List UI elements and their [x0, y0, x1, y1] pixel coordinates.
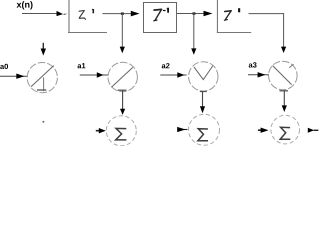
wire corner down to multiplier M4 [281, 13, 286, 53]
summer S3 sigma [280, 127, 290, 139]
value label z of D3 [224, 11, 231, 21]
multiplier M1 spoke down [43, 77, 45, 91]
multiplier M4 diagonal [273, 66, 292, 85]
multiplier M3 vee spokes [194, 66, 213, 80]
delay block D1 z^-1 (left and bottom edges) [68, 0, 107, 33]
coefficient label a0 [0, 64, 8, 69]
summer S3 circle [271, 115, 300, 144]
multiplier M2 circle [108, 62, 137, 91]
wire M4 down to summer S3 [282, 91, 287, 112]
value label z of D2 [154, 9, 162, 20]
multiplier M4 upper-right tick [289, 64, 293, 68]
wire a1 into multiplier M2 [80, 72, 109, 77]
wire input x(n) to delay D1 [22, 11, 68, 16]
wire into summer S1 from left [96, 128, 106, 133]
multiplier M2 bottom tick [118, 89, 127, 91]
wire a0 into multiplier M1 [0, 74, 28, 79]
wire M3 down to summer S2 [200, 92, 205, 114]
delay block D3 z^-1 (left and bottom edges) [217, 0, 251, 33]
multiplier M4 circle [269, 61, 298, 90]
summer S2 sigma [198, 129, 208, 141]
multiplier M1 bottom tick [37, 89, 46, 91]
delay block D2 z^-1 [144, 3, 177, 33]
multiplier M3 bottom tick [200, 91, 207, 93]
multiplier M1 circle [27, 63, 57, 93]
exponent -1 of D2 [163, 8, 169, 13]
multiplier M3 circle [189, 62, 218, 91]
wire a3 into multiplier M4 [248, 72, 269, 77]
node x(n) input label [17, 1, 33, 9]
wire a2 into multiplier M3 [160, 72, 186, 77]
exponent -1 of D1 [92, 9, 93, 13]
wire branch down to multiplier M3 [191, 14, 196, 55]
wire M2 down to summer S1 [120, 90, 125, 115]
wire arrow down into multiplier M1 [41, 43, 46, 56]
wire into summer S2 from left [177, 127, 187, 132]
value label z of D1 [79, 11, 85, 20]
wire into summer S3 from left [258, 128, 269, 133]
multiplier M1 diagonal [31, 66, 54, 87]
wire branch down to multiplier M2 [120, 14, 125, 54]
coefficient label a1 [78, 63, 86, 68]
node dot below M1 [42, 121, 44, 123]
coefficient label a2 [162, 63, 170, 68]
junction node between D2 and D3 [193, 12, 196, 15]
wire D2 to D3 [177, 11, 213, 17]
summer S2 circle [189, 114, 220, 145]
wire D3 output to corner [249, 13, 284, 15]
wire D1 to D2 [102, 11, 139, 17]
summer S1 circle [106, 116, 136, 146]
wire output y(n) from summer S3 [308, 128, 319, 133]
coefficient label a3 [249, 62, 257, 67]
multiplier M2 diagonal [111, 67, 132, 87]
multiplier M4 bottom tick [280, 90, 289, 92]
exponent -1 of D3 [238, 8, 240, 12]
summer S1 sigma [116, 128, 127, 140]
junction node between D1 and D2 [121, 12, 124, 15]
